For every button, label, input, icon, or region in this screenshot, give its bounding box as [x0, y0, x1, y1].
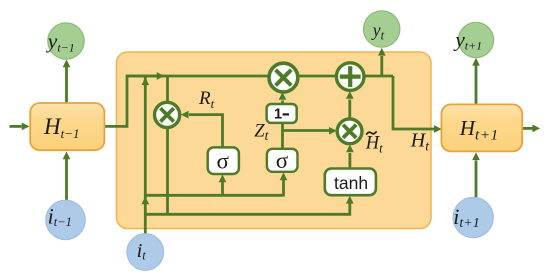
svg-text:σ: σ	[217, 149, 230, 174]
input circle i_t	[127, 234, 164, 271]
wire: Z branch to candidate multiplier	[283, 129, 331, 132]
1- box	[267, 104, 297, 123]
wire: H_{t-1} output into cell, up to top rail	[104, 76, 164, 126]
wire: tanh output up into candidate multiplier	[348, 153, 351, 169]
input circle i_{t+1}	[453, 197, 493, 237]
hidden state box H_{t-1}	[30, 103, 104, 150]
wire: H_{t+1} output arrow right	[522, 127, 533, 130]
wire: candidate multiplier up into adder	[348, 100, 351, 119]
GRU cell body (big rounded box)	[117, 52, 432, 229]
wire: i_t vertical up to top rail	[144, 76, 147, 234]
wire: tanh feed rail (line B)	[145, 203, 349, 214]
wire: i_{t-1} to H_{t-1} bottom	[65, 159, 68, 200]
reset gate multiplier (circled X)	[155, 102, 180, 127]
wire: sigma 2 up to 1- box	[281, 123, 284, 149]
svg-text:1: 1	[274, 107, 282, 123]
top rail wire	[127, 75, 393, 78]
wire: feed up into sigma 1	[221, 182, 224, 196]
wire: branch up to y_t	[380, 56, 383, 76]
svg-text:tanh: tanh	[334, 173, 368, 193]
wire: 1- box up into top multiplier	[281, 101, 284, 105]
wire: H_{t+1} top to y_{t+1}	[475, 66, 478, 105]
wire: i_{t+1} to H_{t+1} bottom	[475, 161, 478, 198]
update gate multiplier (circled X, top)	[269, 63, 298, 92]
wire: input arrow into H_{t-1} from left edge	[10, 125, 22, 128]
output circle y_{t-1}	[48, 23, 84, 59]
wire: top rail corner down and out to H_{t+1} (H_t output)	[393, 76, 434, 129]
candidate multiplier (circled X, near tanh)	[337, 119, 362, 144]
wire: feed up into sigma 2	[282, 180, 285, 197]
hidden state box H_{t+1}	[441, 104, 522, 151]
output circle y_{t+1}	[458, 22, 493, 57]
sigma box 1 (reset gate)	[208, 147, 239, 174]
sigma box 2 (update gate)	[267, 149, 298, 172]
output circle y_t	[364, 11, 400, 47]
wire: vertical through reset gate multiplier	[166, 76, 169, 214]
svg-text:σ: σ	[276, 148, 289, 173]
wire: H_{t-1} top to y_{t-1}	[65, 66, 68, 103]
wire: gate feed rail (line A)	[145, 194, 283, 197]
arrowhead on top rail	[157, 72, 165, 80]
tanh box	[325, 169, 376, 196]
wire: sigma 1 output to reset multiplier	[189, 115, 223, 148]
adder (circled plus)	[336, 63, 364, 91]
input circle i_{t-1}	[46, 200, 86, 240]
